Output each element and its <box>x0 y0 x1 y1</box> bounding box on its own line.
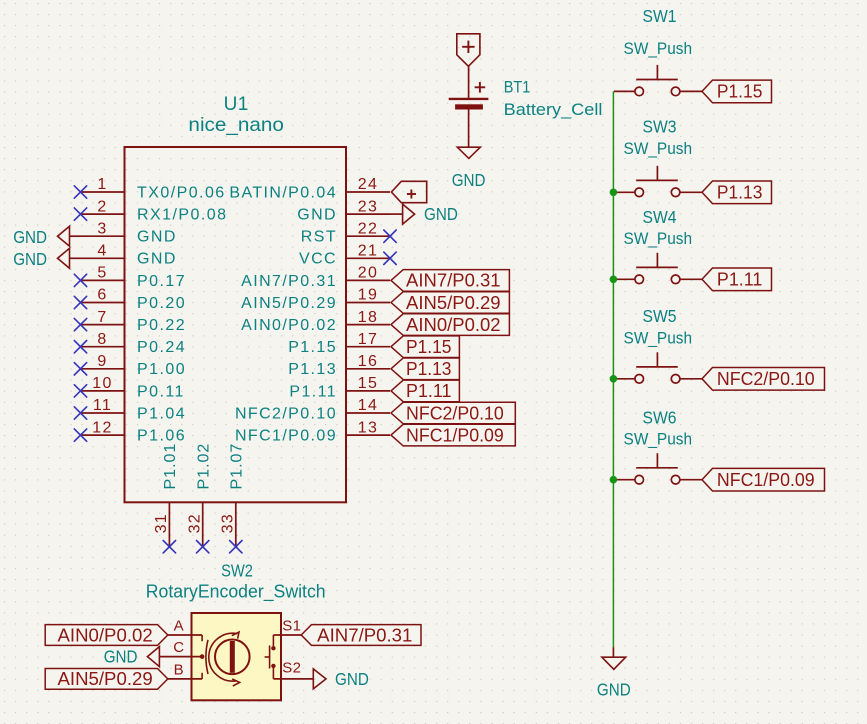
svg-text:AIN0/P0.02: AIN0/P0.02 <box>241 317 337 334</box>
no-connect pin 32 <box>197 541 209 553</box>
svg-text:20: 20 <box>358 265 378 282</box>
svg-text:5: 5 <box>97 265 107 282</box>
U1 pin 32 P1.02 <box>187 443 213 547</box>
U1 pin 16 P1.13 <box>288 353 390 378</box>
svg-text:15: 15 <box>358 375 378 392</box>
power GND at U1 pin 23 <box>390 204 458 224</box>
svg-text:GND: GND <box>13 249 47 269</box>
global label AIN0/P0.02 <box>45 625 168 646</box>
wire +BATT to BT1 <box>468 66 470 98</box>
svg-text:U1: U1 <box>224 94 249 115</box>
svg-text:AIN5/P0.29: AIN5/P0.29 <box>241 295 337 312</box>
svg-text:RX1/P0.08: RX1/P0.08 <box>137 207 227 224</box>
rotary encoder SW2 body <box>192 613 282 700</box>
power GND below BT1 <box>452 147 486 190</box>
no-connect pin 2 <box>74 208 86 220</box>
switch SW6 <box>614 453 702 484</box>
svg-text:P1.11: P1.11 <box>406 381 452 401</box>
no-connect pin 33 <box>230 541 242 553</box>
U1 pin 10 P0.11 <box>81 375 185 400</box>
global label NFC1/P0.09 <box>702 468 825 491</box>
SW2 pin C <box>159 639 204 659</box>
switch SW4 reference <box>643 207 677 227</box>
U1 pin 23 GND <box>297 198 390 223</box>
svg-text:AIN7/P0.31: AIN7/P0.31 <box>317 625 412 645</box>
wire GND bus to ground <box>612 647 614 657</box>
svg-text:GND: GND <box>137 229 177 246</box>
svg-text:P1.11: P1.11 <box>289 383 337 400</box>
U1 reference <box>224 94 249 115</box>
svg-text:21: 21 <box>358 243 378 260</box>
U1 pin 7 P0.22 <box>81 309 187 334</box>
power GND at U1 pin 4 <box>13 248 80 269</box>
U1 pin 5 P0.17 <box>81 265 187 290</box>
svg-text:SW_Push: SW_Push <box>624 39 693 58</box>
power GND at SW2 pin C <box>104 647 160 667</box>
svg-text:AIN5/P0.29: AIN5/P0.29 <box>406 293 501 313</box>
battery BT1 <box>449 82 489 110</box>
global label NFC2/P0.10 <box>702 368 825 391</box>
svg-text:S1: S1 <box>282 617 301 634</box>
global label NFC2/P0.10 <box>391 402 515 424</box>
U1 pin 4 GND <box>81 243 177 268</box>
svg-text:SW4: SW4 <box>643 207 677 227</box>
SW2 pin A <box>168 617 202 635</box>
svg-text:P1.04: P1.04 <box>137 405 186 422</box>
U1 pin 8 P0.24 <box>81 331 187 356</box>
SW2 pin S1 <box>273 617 301 635</box>
U1 pin 22 RST <box>301 220 390 245</box>
wire BT1 to GND <box>468 110 470 148</box>
global label P1.13 <box>391 358 459 380</box>
svg-text:NFC1/P0.09: NFC1/P0.09 <box>406 425 504 445</box>
svg-text:A: A <box>174 617 184 634</box>
svg-text:RST: RST <box>301 229 337 246</box>
SW2 value RotaryEncoder_Switch <box>146 582 326 603</box>
power +BATT at U1 pin 24 <box>391 181 426 202</box>
svg-text:4: 4 <box>97 243 107 260</box>
BT1 value Battery_Cell <box>504 100 603 119</box>
no-connect pin 22 <box>384 230 396 242</box>
global label AIN7/P0.31 at S1 <box>301 625 421 646</box>
svg-text:P1.07: P1.07 <box>229 443 246 490</box>
svg-text:C: C <box>173 639 184 656</box>
svg-text:18: 18 <box>358 309 378 326</box>
svg-text:P1.06: P1.06 <box>137 428 186 445</box>
svg-text:P1.01: P1.01 <box>162 443 179 490</box>
svg-text:S2: S2 <box>282 659 301 676</box>
svg-text:B: B <box>174 662 184 679</box>
svg-text:SW_Push: SW_Push <box>624 139 693 158</box>
U1 pin 2 RX1/P0.08 <box>81 198 228 223</box>
svg-text:GND: GND <box>452 170 486 190</box>
junction at SW4 <box>610 276 618 284</box>
switch SW3 <box>614 166 702 197</box>
svg-text:16: 16 <box>358 353 378 370</box>
junction at SW3 <box>610 189 618 197</box>
svg-text:10: 10 <box>92 375 112 392</box>
svg-text:BATIN/P0.04: BATIN/P0.04 <box>229 184 337 201</box>
svg-text:SW_Push: SW_Push <box>624 229 693 248</box>
global label P1.15 <box>391 336 459 358</box>
svg-text:nice_nano: nice_nano <box>188 114 284 136</box>
svg-text:SW_Push: SW_Push <box>624 430 693 449</box>
IC U1 body <box>125 147 347 502</box>
svg-text:14: 14 <box>358 397 378 414</box>
global label P1.15 <box>702 80 772 103</box>
U1 pin 13 NFC1/P0.09 <box>235 419 390 444</box>
svg-text:P1.13: P1.13 <box>288 361 337 378</box>
U1 pin 20 AIN7/P0.31 <box>241 265 390 290</box>
power +BATT above BT1 <box>457 34 480 67</box>
no-connect pin 7 <box>74 318 86 330</box>
svg-text:GND: GND <box>104 647 138 667</box>
svg-text:GND: GND <box>297 207 337 224</box>
svg-text:NFC1/P0.09: NFC1/P0.09 <box>717 470 815 490</box>
svg-text:31: 31 <box>153 513 170 533</box>
switch SW4 <box>614 253 702 284</box>
U1 pin 24 BATIN/P0.04 <box>229 176 390 201</box>
no-connect pin 10 <box>74 385 86 397</box>
svg-text:1: 1 <box>97 176 107 193</box>
svg-text:SW2: SW2 <box>221 560 253 580</box>
no-connect pin 21 <box>384 252 396 264</box>
svg-text:SW3: SW3 <box>643 116 677 136</box>
svg-text:AIN0/P0.02: AIN0/P0.02 <box>58 625 153 645</box>
svg-text:BT1: BT1 <box>504 78 531 97</box>
svg-text:6: 6 <box>97 287 107 304</box>
svg-text:VCC: VCC <box>299 251 337 268</box>
U1 pin 14 NFC2/P0.10 <box>235 397 390 422</box>
no-connect pin 1 <box>74 186 86 198</box>
switch SW5 reference <box>643 306 677 326</box>
svg-text:32: 32 <box>187 513 204 533</box>
svg-text:9: 9 <box>97 353 107 370</box>
junction at SW5 <box>610 375 618 383</box>
svg-text:AIN7/P0.31: AIN7/P0.31 <box>241 273 337 290</box>
svg-text:33: 33 <box>220 513 237 533</box>
svg-text:RotaryEncoder_Switch: RotaryEncoder_Switch <box>146 582 326 603</box>
U1 pin 33 P1.07 <box>220 443 246 547</box>
svg-text:17: 17 <box>358 331 378 348</box>
SW6 value SW_Push <box>624 430 693 449</box>
U1 value nice_nano <box>188 114 284 136</box>
switch SW3 reference <box>643 116 677 136</box>
svg-text:7: 7 <box>97 309 107 326</box>
U1 pin 6 P0.20 <box>81 287 187 312</box>
U1 pin 9 P1.00 <box>81 353 187 378</box>
U1 pin 31 P1.01 <box>153 443 179 547</box>
svg-text:11: 11 <box>93 397 112 414</box>
switch SW1 <box>614 65 702 96</box>
svg-text:8: 8 <box>97 331 107 348</box>
svg-text:P0.11: P0.11 <box>137 383 185 400</box>
U1 pin 11 P1.04 <box>81 397 187 422</box>
no-connect pin 12 <box>74 429 86 441</box>
U1 pin 12 P1.06 <box>81 419 187 444</box>
junction at SW6 <box>610 476 618 484</box>
U1 pin 19 AIN5/P0.29 <box>241 287 390 312</box>
svg-text:GND: GND <box>597 680 631 700</box>
svg-text:12: 12 <box>92 419 112 436</box>
svg-text:P1.11: P1.11 <box>717 270 763 290</box>
SW2 reference <box>221 560 253 580</box>
svg-text:P0.20: P0.20 <box>137 295 186 312</box>
U1 pin 18 AIN0/P0.02 <box>241 309 390 334</box>
svg-text:P1.02: P1.02 <box>196 443 213 490</box>
SW2 pin B <box>168 662 202 679</box>
svg-text:NFC1/P0.09: NFC1/P0.09 <box>235 428 337 445</box>
global label AIN7/P0.31 <box>391 270 509 292</box>
svg-text:P0.24: P0.24 <box>137 339 186 356</box>
svg-text:GND: GND <box>137 251 177 268</box>
svg-text:2: 2 <box>97 198 107 215</box>
svg-text:NFC2/P0.10: NFC2/P0.10 <box>406 403 504 423</box>
svg-text:23: 23 <box>358 198 378 215</box>
U1 pin 3 GND <box>81 220 177 245</box>
svg-text:NFC2/P0.10: NFC2/P0.10 <box>235 405 337 422</box>
no-connect pin 11 <box>74 407 86 419</box>
svg-text:SW_Push: SW_Push <box>624 329 693 348</box>
svg-text:13: 13 <box>358 419 378 436</box>
svg-text:Battery_Cell: Battery_Cell <box>504 100 603 119</box>
power GND at SW2 pin S2 <box>313 669 369 689</box>
BT1 reference <box>504 78 531 97</box>
svg-text:P1.15: P1.15 <box>717 82 763 102</box>
global label AIN5/P0.29 <box>45 669 168 690</box>
svg-text:GND: GND <box>335 669 369 689</box>
svg-text:P1.13: P1.13 <box>717 183 763 203</box>
svg-text:P1.15: P1.15 <box>406 337 452 357</box>
SW2 pin S2 <box>273 659 313 679</box>
U1 pin 17 P1.15 <box>288 331 390 356</box>
SW3 value SW_Push <box>624 139 693 158</box>
no-connect pin 8 <box>74 341 86 353</box>
switch SW5 <box>614 352 702 383</box>
SW2 switch graphic <box>265 635 276 679</box>
svg-text:19: 19 <box>358 287 378 304</box>
svg-text:GND: GND <box>13 227 47 247</box>
power GND bottom of bus <box>597 657 631 699</box>
SW1 value SW_Push <box>624 39 693 58</box>
power GND at U1 pin 3 <box>13 226 80 247</box>
no-connect pin 31 <box>163 541 175 553</box>
svg-text:22: 22 <box>358 220 378 237</box>
svg-text:SW1: SW1 <box>643 6 677 26</box>
global label AIN5/P0.29 <box>391 292 509 314</box>
no-connect pin 6 <box>74 296 86 308</box>
svg-text:3: 3 <box>97 220 107 237</box>
SW2 encoder graphic <box>202 632 250 686</box>
global label AIN0/P0.02 <box>391 314 509 336</box>
SW4 value SW_Push <box>624 229 693 248</box>
svg-text:P1.15: P1.15 <box>288 339 337 356</box>
svg-text:AIN7/P0.31: AIN7/P0.31 <box>406 271 501 291</box>
svg-text:SW5: SW5 <box>643 306 677 326</box>
global label P1.11 <box>702 268 772 291</box>
svg-text:NFC2/P0.10: NFC2/P0.10 <box>717 369 815 389</box>
svg-text:SW6: SW6 <box>643 408 677 428</box>
svg-text:TX0/P0.06: TX0/P0.06 <box>137 184 226 201</box>
switch SW1 reference <box>643 6 677 26</box>
svg-text:GND: GND <box>424 204 458 224</box>
svg-text:AIN0/P0.02: AIN0/P0.02 <box>406 315 501 335</box>
svg-text:P1.13: P1.13 <box>406 359 452 379</box>
U1 pin 1 TX0/P0.06 <box>81 176 226 201</box>
wire GND bus vertical <box>612 91 614 647</box>
SW5 value SW_Push <box>624 329 693 348</box>
global label NFC1/P0.09 <box>391 424 515 446</box>
U1 pin 15 P1.11 <box>289 375 390 400</box>
switch SW6 reference <box>643 408 677 428</box>
no-connect pin 5 <box>74 274 86 286</box>
U1 pin 21 VCC <box>299 243 390 268</box>
svg-text:P0.17: P0.17 <box>137 273 186 290</box>
svg-text:P1.00: P1.00 <box>137 361 186 378</box>
svg-text:P0.22: P0.22 <box>137 317 186 334</box>
no-connect pin 9 <box>74 363 86 375</box>
svg-text:AIN5/P0.29: AIN5/P0.29 <box>58 669 153 689</box>
svg-text:24: 24 <box>358 176 378 193</box>
global label P1.13 <box>702 181 772 204</box>
global label P1.11 <box>391 380 459 402</box>
